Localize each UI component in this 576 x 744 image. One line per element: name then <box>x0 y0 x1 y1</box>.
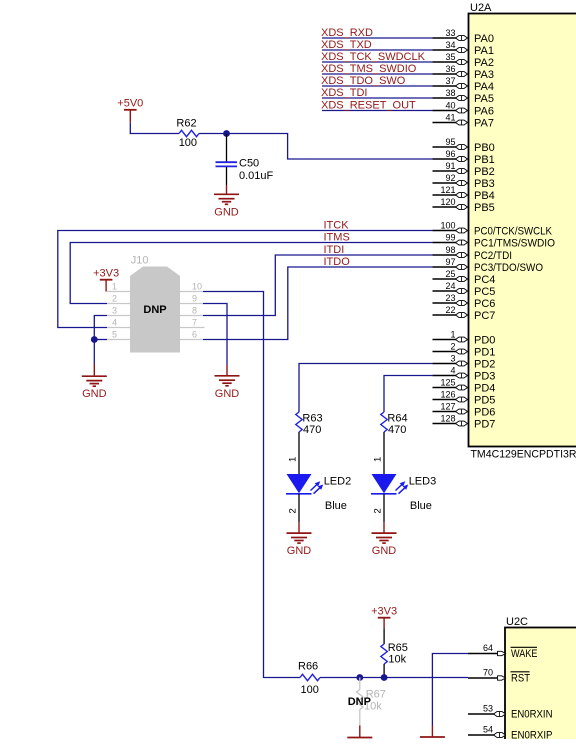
svg-text:XDS_TXD: XDS_TXD <box>321 39 372 51</box>
svg-text:PB3: PB3 <box>474 178 495 190</box>
svg-text:LED3: LED3 <box>409 476 437 488</box>
svg-text:R65: R65 <box>388 642 408 654</box>
svg-text:EN0RXIN: EN0RXIN <box>511 709 553 721</box>
svg-text:R64: R64 <box>387 413 407 425</box>
svg-text:41: 41 <box>445 113 455 123</box>
U2A pin 41 (PA7) <box>433 113 494 130</box>
U2A pin 37 (PA4) <box>433 76 494 93</box>
LED LED3 Blue <box>371 474 436 512</box>
U2A pin 99 (PC1) <box>433 233 556 250</box>
wire net XDS_RESET_OUT <box>322 110 433 112</box>
svg-text:99: 99 <box>445 233 455 243</box>
svg-text:PB1: PB1 <box>474 154 495 166</box>
svg-text:PD2: PD2 <box>474 359 495 371</box>
LED2 pin 2 label <box>288 508 299 513</box>
svg-text:4: 4 <box>112 318 117 328</box>
svg-text:J10: J10 <box>131 255 149 267</box>
svg-text:100: 100 <box>179 137 197 149</box>
svg-text:95: 95 <box>445 137 455 147</box>
wire PD to R63 <box>299 364 433 413</box>
U2A pin 40 (PA6) <box>433 101 494 118</box>
U2A pin 1 (PD0) <box>433 330 496 347</box>
svg-text:PC1/TMS/SWDIO: PC1/TMS/SWDIO <box>474 238 555 250</box>
svg-text:C50: C50 <box>239 158 259 170</box>
svg-text:PA0: PA0 <box>474 33 494 45</box>
J10 pin 3 <box>107 306 130 316</box>
capacitor C50 <box>216 134 274 185</box>
LED LED2 Blue <box>286 474 351 512</box>
svg-text:100: 100 <box>440 221 455 231</box>
wire R63 to LED2 <box>298 432 300 474</box>
svg-text:PC5: PC5 <box>474 286 495 298</box>
svg-text:3: 3 <box>112 306 117 316</box>
svg-text:37: 37 <box>445 76 455 86</box>
svg-text:PB5: PB5 <box>474 202 495 214</box>
U2A pin 121 (PB4) <box>433 185 495 202</box>
svg-text:PD6: PD6 <box>474 407 495 419</box>
svg-text:34: 34 <box>445 40 455 50</box>
svg-text:10k: 10k <box>388 653 406 665</box>
svg-text:PA1: PA1 <box>474 45 494 57</box>
svg-text:2: 2 <box>373 508 384 513</box>
net label ITMS <box>324 232 350 244</box>
U2A pin 95 (PB0) <box>433 137 495 154</box>
svg-text:10: 10 <box>192 282 202 292</box>
svg-text:54: 54 <box>483 725 493 735</box>
U2A pin 91 (PB2) <box>433 161 495 178</box>
svg-text:8: 8 <box>192 306 197 316</box>
svg-text:GND: GND <box>215 388 240 400</box>
svg-text:35: 35 <box>445 52 455 62</box>
svg-text:PD1: PD1 <box>474 347 495 359</box>
wire +3V3 to R65 <box>383 628 385 644</box>
svg-text:36: 36 <box>445 64 455 74</box>
U2A pin 97 (PC3) <box>433 257 544 274</box>
svg-text:1: 1 <box>450 330 455 340</box>
svg-text:1: 1 <box>288 457 299 462</box>
svg-text:U2A: U2A <box>470 2 492 14</box>
J10 pin 7 <box>180 318 205 328</box>
ground below R67 (clipped) <box>347 726 372 744</box>
power +3V3 above R65 <box>371 606 397 629</box>
ground below C50 <box>214 185 239 218</box>
ground below J10 left <box>82 364 107 401</box>
wire LED2 to ground <box>298 494 300 522</box>
svg-text:RST: RST <box>511 673 530 685</box>
svg-text:XDS_RXD: XDS_RXD <box>321 27 373 39</box>
net label XDS_RESET_OUT <box>321 100 416 112</box>
svg-text:TM4C129ENCPDTI3R: TM4C129ENCPDTI3R <box>471 449 576 461</box>
wire J10 pin 10 down to R66 <box>203 292 300 678</box>
wire R62 to node <box>199 133 227 135</box>
svg-text:XDS_TMS_SWDIO: XDS_TMS_SWDIO <box>321 63 417 75</box>
svg-text:PD5: PD5 <box>474 395 495 407</box>
IC U2C body <box>505 628 576 743</box>
svg-text:PB4: PB4 <box>474 190 495 202</box>
svg-text:53: 53 <box>483 704 493 714</box>
svg-text:PC3/TDO/SWO: PC3/TDO/SWO <box>474 262 543 274</box>
svg-text:2: 2 <box>450 342 455 352</box>
junction node J10 pin3/pin5 <box>91 336 98 343</box>
svg-text:GND: GND <box>82 388 107 400</box>
net label XDS_RXD <box>321 27 373 39</box>
svg-text:R63: R63 <box>302 413 322 425</box>
svg-text:XDS_TCK_SWDCLK: XDS_TCK_SWDCLK <box>321 51 426 63</box>
svg-text:PA5: PA5 <box>474 93 494 105</box>
svg-text:EN0RXIP: EN0RXIP <box>511 730 553 740</box>
svg-text:+5V0: +5V0 <box>117 98 143 110</box>
svg-text:1: 1 <box>373 457 384 462</box>
svg-text:WAKE: WAKE <box>511 648 538 660</box>
svg-text:ITCK: ITCK <box>324 220 350 232</box>
wire WAKE to ground <box>432 654 468 726</box>
U2A pin 3 (PD2) <box>433 354 496 371</box>
svg-text:98: 98 <box>445 245 455 255</box>
svg-text:96: 96 <box>445 149 455 159</box>
wire net XDS_TXD <box>322 49 433 51</box>
svg-text:7: 7 <box>192 318 197 328</box>
U2A pin 100 (PC0) <box>433 221 553 238</box>
U2A pin 22 (PC7) <box>433 305 496 322</box>
svg-text:PD4: PD4 <box>474 383 495 395</box>
svg-text:70: 70 <box>483 668 493 678</box>
wire node to PB1 pin 96 <box>227 134 434 160</box>
U2C pin 54 (EN0RXIP) <box>468 725 553 742</box>
wire net ITDO : PC3 to J10 pin 6 <box>203 267 433 340</box>
net label XDS_TMS_SWDIO <box>321 63 417 75</box>
svg-text:LED2: LED2 <box>324 476 352 488</box>
LED3 pin 2 label <box>373 508 384 513</box>
svg-text:PB0: PB0 <box>474 142 495 154</box>
wire net XDS_TCK_SWDCLK <box>322 61 433 63</box>
svg-text:PC6: PC6 <box>474 298 495 310</box>
svg-text:PA7: PA7 <box>474 118 494 130</box>
svg-text:PD0: PD0 <box>474 335 495 347</box>
power +3V3 at J10 pin 1 <box>93 268 119 292</box>
ground below LED2 <box>287 522 312 557</box>
svg-text:5: 5 <box>112 330 117 340</box>
svg-text:470: 470 <box>388 424 406 436</box>
wire PD to R64 <box>384 376 433 413</box>
J10 pin 4 <box>107 318 130 328</box>
wire net XDS_TDO_SWO <box>322 85 433 87</box>
U2C reference designator <box>506 616 528 628</box>
wire node down to ground <box>93 340 95 364</box>
U2A pin 34 (PA1) <box>433 40 494 57</box>
svg-text:PB2: PB2 <box>474 166 495 178</box>
J10 reference designator <box>131 255 149 267</box>
IC U2A body <box>469 14 576 447</box>
U2A pin 33 (PA0) <box>433 28 494 45</box>
ground below LED3 <box>372 522 397 557</box>
svg-text:XDS_TDI: XDS_TDI <box>321 87 367 99</box>
junction node R62/C50 <box>223 130 230 137</box>
svg-text:128: 128 <box>440 414 455 424</box>
svg-text:38: 38 <box>445 88 455 98</box>
U2C pin 70 (RST) <box>468 668 530 685</box>
J10 pin 8 <box>180 306 203 316</box>
resistor R62 <box>176 118 199 150</box>
svg-text:126: 126 <box>440 390 455 400</box>
svg-text:PC4: PC4 <box>474 274 495 286</box>
svg-text:127: 127 <box>440 402 455 412</box>
svg-text:GND: GND <box>287 545 312 557</box>
wire J10 pin 9 to ground <box>203 304 227 365</box>
svg-text:22: 22 <box>445 305 455 315</box>
resistor R67 10k (DNP) <box>357 678 386 726</box>
U2A pin 125 (PD4) <box>433 378 496 395</box>
wire net ITDI : PC2 to J10 pin 8 <box>203 255 433 316</box>
LED2 pin 1 label <box>288 457 299 462</box>
ground below J10 right <box>215 365 240 400</box>
svg-text:100: 100 <box>301 684 319 696</box>
U2A pin 120 (PB5) <box>433 197 495 214</box>
svg-text:ITDI: ITDI <box>324 244 345 256</box>
U2A pin 92 (PB3) <box>433 173 495 190</box>
J10 pin 1 <box>107 282 130 292</box>
net label XDS_TXD <box>321 39 372 51</box>
U2A value TM4C129ENCPDTI3R <box>471 449 576 461</box>
U2A pin 23 (PC6) <box>433 293 496 310</box>
svg-text:PD3: PD3 <box>474 371 495 383</box>
svg-text:PA4: PA4 <box>474 81 494 93</box>
U2A pin 25 (PC4) <box>433 269 496 286</box>
junction node R65 <box>381 674 388 681</box>
wire net XDS_RXD <box>322 37 433 39</box>
svg-text:PC2/TDI: PC2/TDI <box>474 250 512 262</box>
svg-text:40: 40 <box>445 101 455 111</box>
U2A pin 2 (PD1) <box>433 342 496 359</box>
svg-text:Blue: Blue <box>325 500 347 512</box>
svg-text:GND: GND <box>372 545 397 557</box>
wire net XDS_TMS_SWDIO <box>322 73 433 75</box>
svg-text:ITDO: ITDO <box>324 256 351 268</box>
svg-text:+3V3: +3V3 <box>371 606 397 618</box>
J10 pin 10 <box>180 282 203 292</box>
svg-text:9: 9 <box>192 294 197 304</box>
svg-text:120: 120 <box>440 197 455 207</box>
svg-text:6: 6 <box>192 330 197 340</box>
net label ITCK <box>324 220 350 232</box>
J10 DNP label <box>143 304 166 316</box>
U2A pin 98 (PC2) <box>433 245 513 262</box>
U2A pin 96 (PB1) <box>433 149 495 166</box>
svg-text:DNP: DNP <box>143 304 166 316</box>
svg-text:U2C: U2C <box>506 616 528 628</box>
svg-text:125: 125 <box>440 378 455 388</box>
U2A pin 38 (PA5) <box>433 88 494 105</box>
svg-text:DNP: DNP <box>348 696 371 708</box>
LED3 pin 1 label <box>373 457 384 462</box>
svg-text:+3V3: +3V3 <box>93 268 119 280</box>
U2C pin 64 (WAKE) <box>468 643 538 660</box>
net label XDS_TDO_SWO <box>321 75 406 87</box>
svg-text:97: 97 <box>445 257 455 267</box>
U2A pin 128 (PD7) <box>433 414 496 431</box>
svg-text:PD7: PD7 <box>474 419 495 431</box>
J10 pin 2 <box>107 294 130 304</box>
J10 pin 5 <box>107 330 130 340</box>
J10 pin 6 <box>180 330 203 340</box>
svg-text:XDS_RESET_OUT: XDS_RESET_OUT <box>321 100 416 112</box>
U2A reference designator <box>470 2 492 14</box>
wire net XDS_TDI <box>322 97 433 99</box>
svg-text:XDS_TDO_SWO: XDS_TDO_SWO <box>321 75 406 87</box>
svg-text:R62: R62 <box>176 118 196 130</box>
svg-text:64: 64 <box>483 643 493 653</box>
U2A pin 127 (PD6) <box>433 402 496 419</box>
svg-text:470: 470 <box>303 424 321 436</box>
svg-text:PA2: PA2 <box>474 57 494 69</box>
svg-text:25: 25 <box>445 269 455 279</box>
ground below WAKE wire (clipped) <box>420 726 445 744</box>
svg-text:PA6: PA6 <box>474 106 494 118</box>
wire net ITMS : PC1 to J10 pin 2 <box>70 243 433 304</box>
wire J10 pin 3 to ground node <box>94 316 107 340</box>
wire J10 pin 5 to ground node <box>94 339 107 341</box>
svg-text:PA3: PA3 <box>474 69 494 81</box>
net label ITDI <box>324 244 345 256</box>
net label ITDO <box>324 256 351 268</box>
svg-text:0.01uF: 0.01uF <box>239 170 274 182</box>
U2A pin 36 (PA3) <box>433 64 494 81</box>
resistor R66 100 <box>298 661 320 697</box>
U2A pin 126 (PD5) <box>433 390 496 407</box>
wire net ITCK : PC0 to J10 pin 4 <box>58 231 433 328</box>
svg-text:92: 92 <box>445 173 455 183</box>
resistor R64 470 <box>381 412 408 436</box>
wire +5V0 to R62 <box>130 123 179 134</box>
svg-text:121: 121 <box>440 185 455 195</box>
U2A pin 24 (PC5) <box>433 281 496 298</box>
U2A pin 4 (PD3) <box>433 366 496 383</box>
wire R65 to node <box>383 664 385 678</box>
svg-text:PC0/TCK/SWCLK: PC0/TCK/SWCLK <box>474 226 553 238</box>
svg-text:ITMS: ITMS <box>324 232 350 244</box>
junction node R67 <box>356 674 363 681</box>
R67 DNP label <box>348 696 371 708</box>
power +5V0 <box>117 98 143 123</box>
U2A pin 35 (PA2) <box>433 52 494 69</box>
svg-text:PC7: PC7 <box>474 310 495 322</box>
svg-text:R66: R66 <box>298 661 318 673</box>
svg-text:2: 2 <box>288 508 299 513</box>
svg-text:2: 2 <box>112 294 117 304</box>
svg-text:Blue: Blue <box>410 500 432 512</box>
svg-text:3: 3 <box>450 354 455 364</box>
wire R64 to LED3 <box>383 432 385 474</box>
J10 pin 9 <box>180 294 203 304</box>
U2C pin 53 (EN0RXIN) <box>468 704 553 721</box>
svg-text:1: 1 <box>112 282 117 292</box>
connector J10 body (DNP) <box>130 267 180 353</box>
svg-text:33: 33 <box>445 28 455 38</box>
wire R66 to RST pin 70 <box>320 677 468 679</box>
wire LED3 to ground <box>383 494 385 522</box>
net label XDS_TCK_SWDCLK <box>321 51 426 63</box>
resistor R63 470 <box>296 412 323 436</box>
net label XDS_TDI <box>321 87 367 99</box>
svg-text:23: 23 <box>445 293 455 303</box>
svg-text:24: 24 <box>445 281 455 291</box>
resistor R65 10k <box>381 642 408 666</box>
svg-text:91: 91 <box>445 161 455 171</box>
svg-text:4: 4 <box>450 366 455 376</box>
svg-text:GND: GND <box>214 206 239 218</box>
